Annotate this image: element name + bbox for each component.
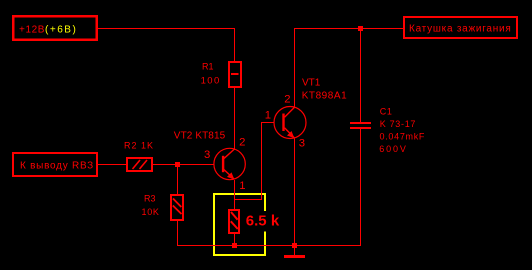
wire C1 bottom to rail [360,129,362,246]
svg-text:6.5 k: 6.5 k [246,212,280,229]
junction node 6.5k/rail [232,243,237,248]
wire 6.5k to rail [234,233,236,246]
junction node emitter/rail [292,243,297,248]
wire VT1 collector to coil box [295,29,405,108]
svg-text:C1: C1 [380,107,393,117]
svg-text:Катушка зажигания: Катушка зажигания [409,24,512,35]
svg-text:3: 3 [299,138,305,150]
svg-text:VT2 KT815: VT2 KT815 [174,131,226,142]
svg-text:R1: R1 [202,62,214,72]
svg-text:К выводу RВЗ: К выводу RВЗ [20,160,94,171]
svg-text:KT898A1: KT898A1 [302,90,348,101]
resistor R3 [171,195,183,220]
wire +12V rail to R1 [98,29,235,63]
svg-text:R3: R3 [144,193,156,203]
wire R3 to ground rail [178,220,362,246]
wire junction to R3 [177,165,179,196]
wire VT2 emitter to 6.5k [234,180,236,210]
svg-text:100: 100 [201,76,221,87]
ground [284,255,305,258]
svg-text:+12В(+6В): +12В(+6В) [19,25,77,36]
svg-text:3: 3 [204,149,210,161]
label 6.5 k (opaque text background) [243,211,280,232]
terminal box K vyvodu RB3 [12,152,98,177]
terminal box ignition coil [403,16,518,39]
svg-text:VT1: VT1 [302,78,321,89]
svg-text:2: 2 [284,94,290,106]
transistor VT1 [274,107,306,139]
junction node base/R3 [175,162,180,167]
highlight box (yellow) around 6.5k [213,193,266,256]
svg-text:10K: 10K [142,207,160,217]
wire R1 to VT2 collector [234,87,236,150]
resistor R2 [127,158,152,171]
transistor VT2 [214,148,245,179]
wire box RB3 to R2 [97,164,127,166]
svg-text:K 73-17: K 73-17 [380,119,416,129]
junction node C1 top [358,26,363,31]
capacitor C1 [350,122,371,129]
wire R2 to VT2 base [153,164,214,166]
wire VT1 emitter to ground [294,139,296,255]
wire C1 top [360,29,362,124]
resistor 6.5k [229,210,239,233]
svg-text:R2 1K: R2 1K [124,141,154,151]
svg-text:600V: 600V [379,144,408,154]
wire VT1 base from emitter node [235,123,275,200]
svg-text:2: 2 [239,136,245,148]
terminal box +12V [12,15,98,41]
svg-text:1: 1 [265,109,271,121]
svg-text:0.047mkF: 0.047mkF [380,131,426,141]
svg-text:1: 1 [239,180,245,192]
resistor R1 [229,62,241,87]
